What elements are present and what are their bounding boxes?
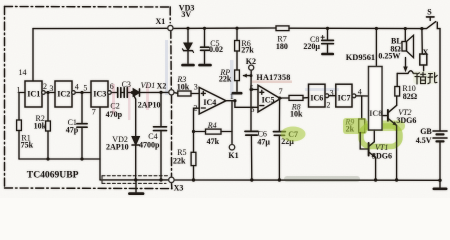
junction node VD2 tap: [131, 91, 134, 94]
transistor VT1: [360, 133, 368, 150]
op-amp IC4: [199, 87, 226, 114]
node X3: [169, 177, 174, 182]
jack X: [421, 29, 423, 54]
resistor R9: [359, 119, 365, 133]
op-amp IC5: [258, 85, 281, 112]
highlighter band over IC8 bottom area: [364, 121, 405, 132]
transistor VT2: [382, 115, 388, 117]
wire IC3 out to C2: [111, 92, 117, 94]
ground battery: [439, 180, 441, 187]
label jack chinese: [415, 72, 437, 84]
resistor R1: [18, 93, 20, 121]
terminal K1: [229, 145, 234, 150]
highlighter mark over R9 and 2k: [343, 118, 367, 134]
resistor R4: [194, 131, 206, 133]
wire IC4 pin2: [194, 108, 200, 131]
zener VD3: [187, 28, 189, 43]
capacitor C2: [117, 88, 119, 98]
capacitor C6: [250, 90, 252, 132]
wire IC4 out to IC5 pin6: [235, 101, 258, 108]
switch S: [427, 16, 435, 18]
highlighter ring over VT1: [361, 126, 400, 147]
wire main ground bus: [174, 179, 440, 181]
junction rail X jack: [420, 27, 423, 30]
junction node B: [80, 91, 83, 94]
ground: [135, 180, 137, 192]
node X1: [168, 25, 173, 30]
junction rail R6: [235, 27, 238, 30]
speaker plug arrow: [405, 58, 407, 68]
buffer IC6: [309, 84, 326, 107]
capacitor C8: [327, 28, 329, 40]
junction RP to +input: [236, 92, 238, 94]
capacitor C4: [160, 92, 162, 126]
wire row IC1 input stub: [19, 92, 25, 94]
resistor R7: [276, 26, 289, 31]
resistor R3: [174, 92, 178, 95]
resistor R8: [289, 95, 303, 100]
capacitor C3: [123, 88, 125, 98]
potentiometer RP: [235, 70, 240, 81]
wire IC5 output: [281, 97, 290, 99]
capacitor C7: [278, 98, 280, 131]
diode VD1: [133, 89, 139, 96]
inverter IC1: [25, 81, 42, 107]
resistor R6: [236, 28, 238, 40]
wire IC6 to IC7: [329, 95, 336, 97]
wire top feedback/supply to pin14: [33, 27, 168, 29]
capacitor C1: [81, 93, 83, 124]
terminal K2: [249, 65, 254, 70]
buffer IC7: [336, 84, 352, 107]
inverter IC2: [55, 81, 72, 107]
junction rail BL: [404, 27, 407, 30]
junction rail C8: [326, 27, 329, 30]
wire IC1 out to IC2: [45, 92, 55, 94]
junction node A: [46, 91, 49, 94]
wire ground bus lower left: [100, 179, 169, 181]
capacitor C5: [204, 28, 206, 46]
wire V+ rail: [173, 27, 276, 29]
sound IC8 KD9561: [375, 29, 377, 67]
dash-dot border of probe module: [5, 7, 173, 189]
wire pin7 down: [99, 107, 101, 180]
wire IC2 out to IC3: [75, 92, 91, 94]
junction rail C5: [203, 27, 206, 30]
speaker BL: [404, 29, 406, 42]
node X2: [169, 90, 174, 95]
junction rail IC8: [375, 27, 378, 30]
faint tint near jack label: [413, 71, 437, 84]
resistor R10: [395, 87, 400, 97]
wire IC7 to IC8 and R9: [356, 95, 368, 97]
shield dashed lines: [102, 176, 168, 184]
battery GB: [439, 29, 441, 131]
inverter IC3: [91, 81, 108, 107]
resistor R5: [193, 132, 195, 153]
jack contact wire with spring bump: [397, 72, 408, 74]
wire IC5 pin5: [251, 89, 258, 91]
junction node C4 tap: [159, 91, 162, 94]
junction rail VD3: [186, 27, 189, 30]
wire R4 to output and K1: [231, 101, 233, 145]
diode VD2: [132, 93, 136, 137]
wire IC4 output: [226, 100, 235, 102]
highlighter mark over C7: [281, 127, 306, 142]
wire ground bus of oscillator: [19, 158, 100, 160]
resistor R2: [47, 93, 49, 122]
